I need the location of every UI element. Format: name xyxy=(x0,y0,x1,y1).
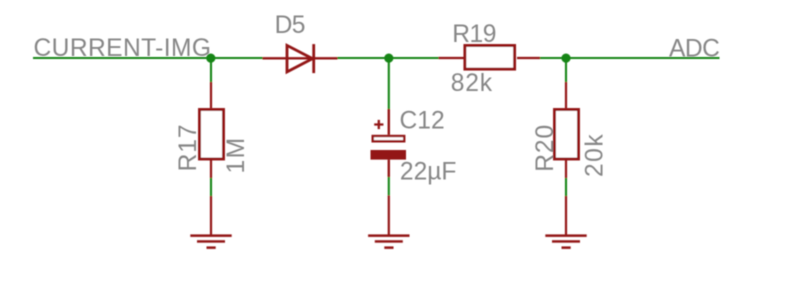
wire segment left (CURRENT-IMG to diode) xyxy=(33,57,263,59)
wire C12 to GND2 xyxy=(388,177,390,195)
value 20k (rotated) xyxy=(582,133,609,177)
label R20 (rotated) xyxy=(532,124,559,172)
svg-text:R19: R19 xyxy=(452,21,496,48)
net label CURRENT-IMG xyxy=(34,35,212,62)
capacitor C12 xyxy=(371,109,407,177)
resistor R17 xyxy=(200,82,224,178)
diode D5 xyxy=(263,44,338,73)
node junction 2 xyxy=(384,54,393,63)
svg-text:20k: 20k xyxy=(582,133,609,177)
svg-text:82k: 82k xyxy=(451,70,493,97)
svg-text:C12: C12 xyxy=(400,107,445,134)
wire junction2 to C12 xyxy=(388,58,390,109)
value 1M (rotated) xyxy=(223,136,250,173)
svg-text:D5: D5 xyxy=(275,12,305,39)
net label ADC xyxy=(669,36,719,63)
wire R17 to GND1 xyxy=(210,178,212,196)
svg-text:R17: R17 xyxy=(175,124,202,172)
label R19 xyxy=(452,21,496,48)
value 82k xyxy=(451,70,493,97)
wire junction3 to R20 xyxy=(565,58,567,82)
label D5 xyxy=(275,12,305,39)
wire junction1 to R17 xyxy=(210,58,212,82)
label R17 (rotated) xyxy=(175,124,202,172)
svg-text:1M: 1M xyxy=(223,136,250,173)
wire R20 to GND3 xyxy=(565,178,567,196)
ground GND3 xyxy=(545,196,586,249)
wire segment R19 to ADC xyxy=(540,57,720,59)
ground GND2 xyxy=(368,195,409,249)
node junction 3 xyxy=(561,54,570,63)
node junction 1 xyxy=(206,54,215,63)
ground GND1 xyxy=(190,196,231,249)
svg-text:22µF: 22µF xyxy=(400,159,457,186)
wire segment diode to R19 xyxy=(338,57,439,59)
resistor R20 xyxy=(555,82,579,178)
value 22µF xyxy=(400,159,457,186)
svg-text:ADC: ADC xyxy=(669,36,719,63)
label C12 xyxy=(400,107,445,134)
svg-text:R20: R20 xyxy=(532,124,559,172)
resistor R19 xyxy=(439,46,541,70)
